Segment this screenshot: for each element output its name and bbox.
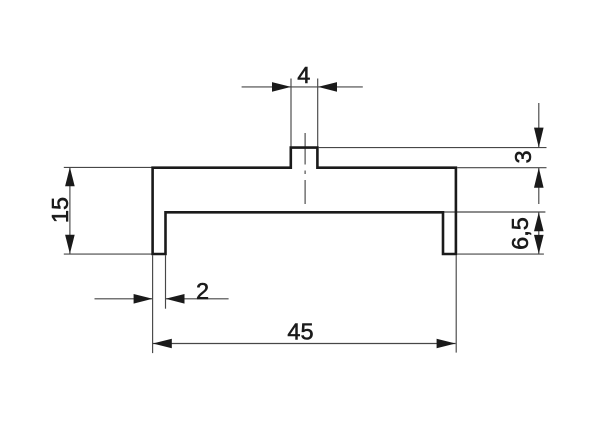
svg-text:4: 4 (297, 62, 310, 88)
svg-text:45: 45 (287, 319, 313, 345)
svg-text:2: 2 (196, 278, 209, 304)
svg-text:3: 3 (510, 150, 536, 163)
svg-text:15: 15 (47, 197, 73, 223)
svg-text:6,5: 6,5 (507, 217, 533, 250)
